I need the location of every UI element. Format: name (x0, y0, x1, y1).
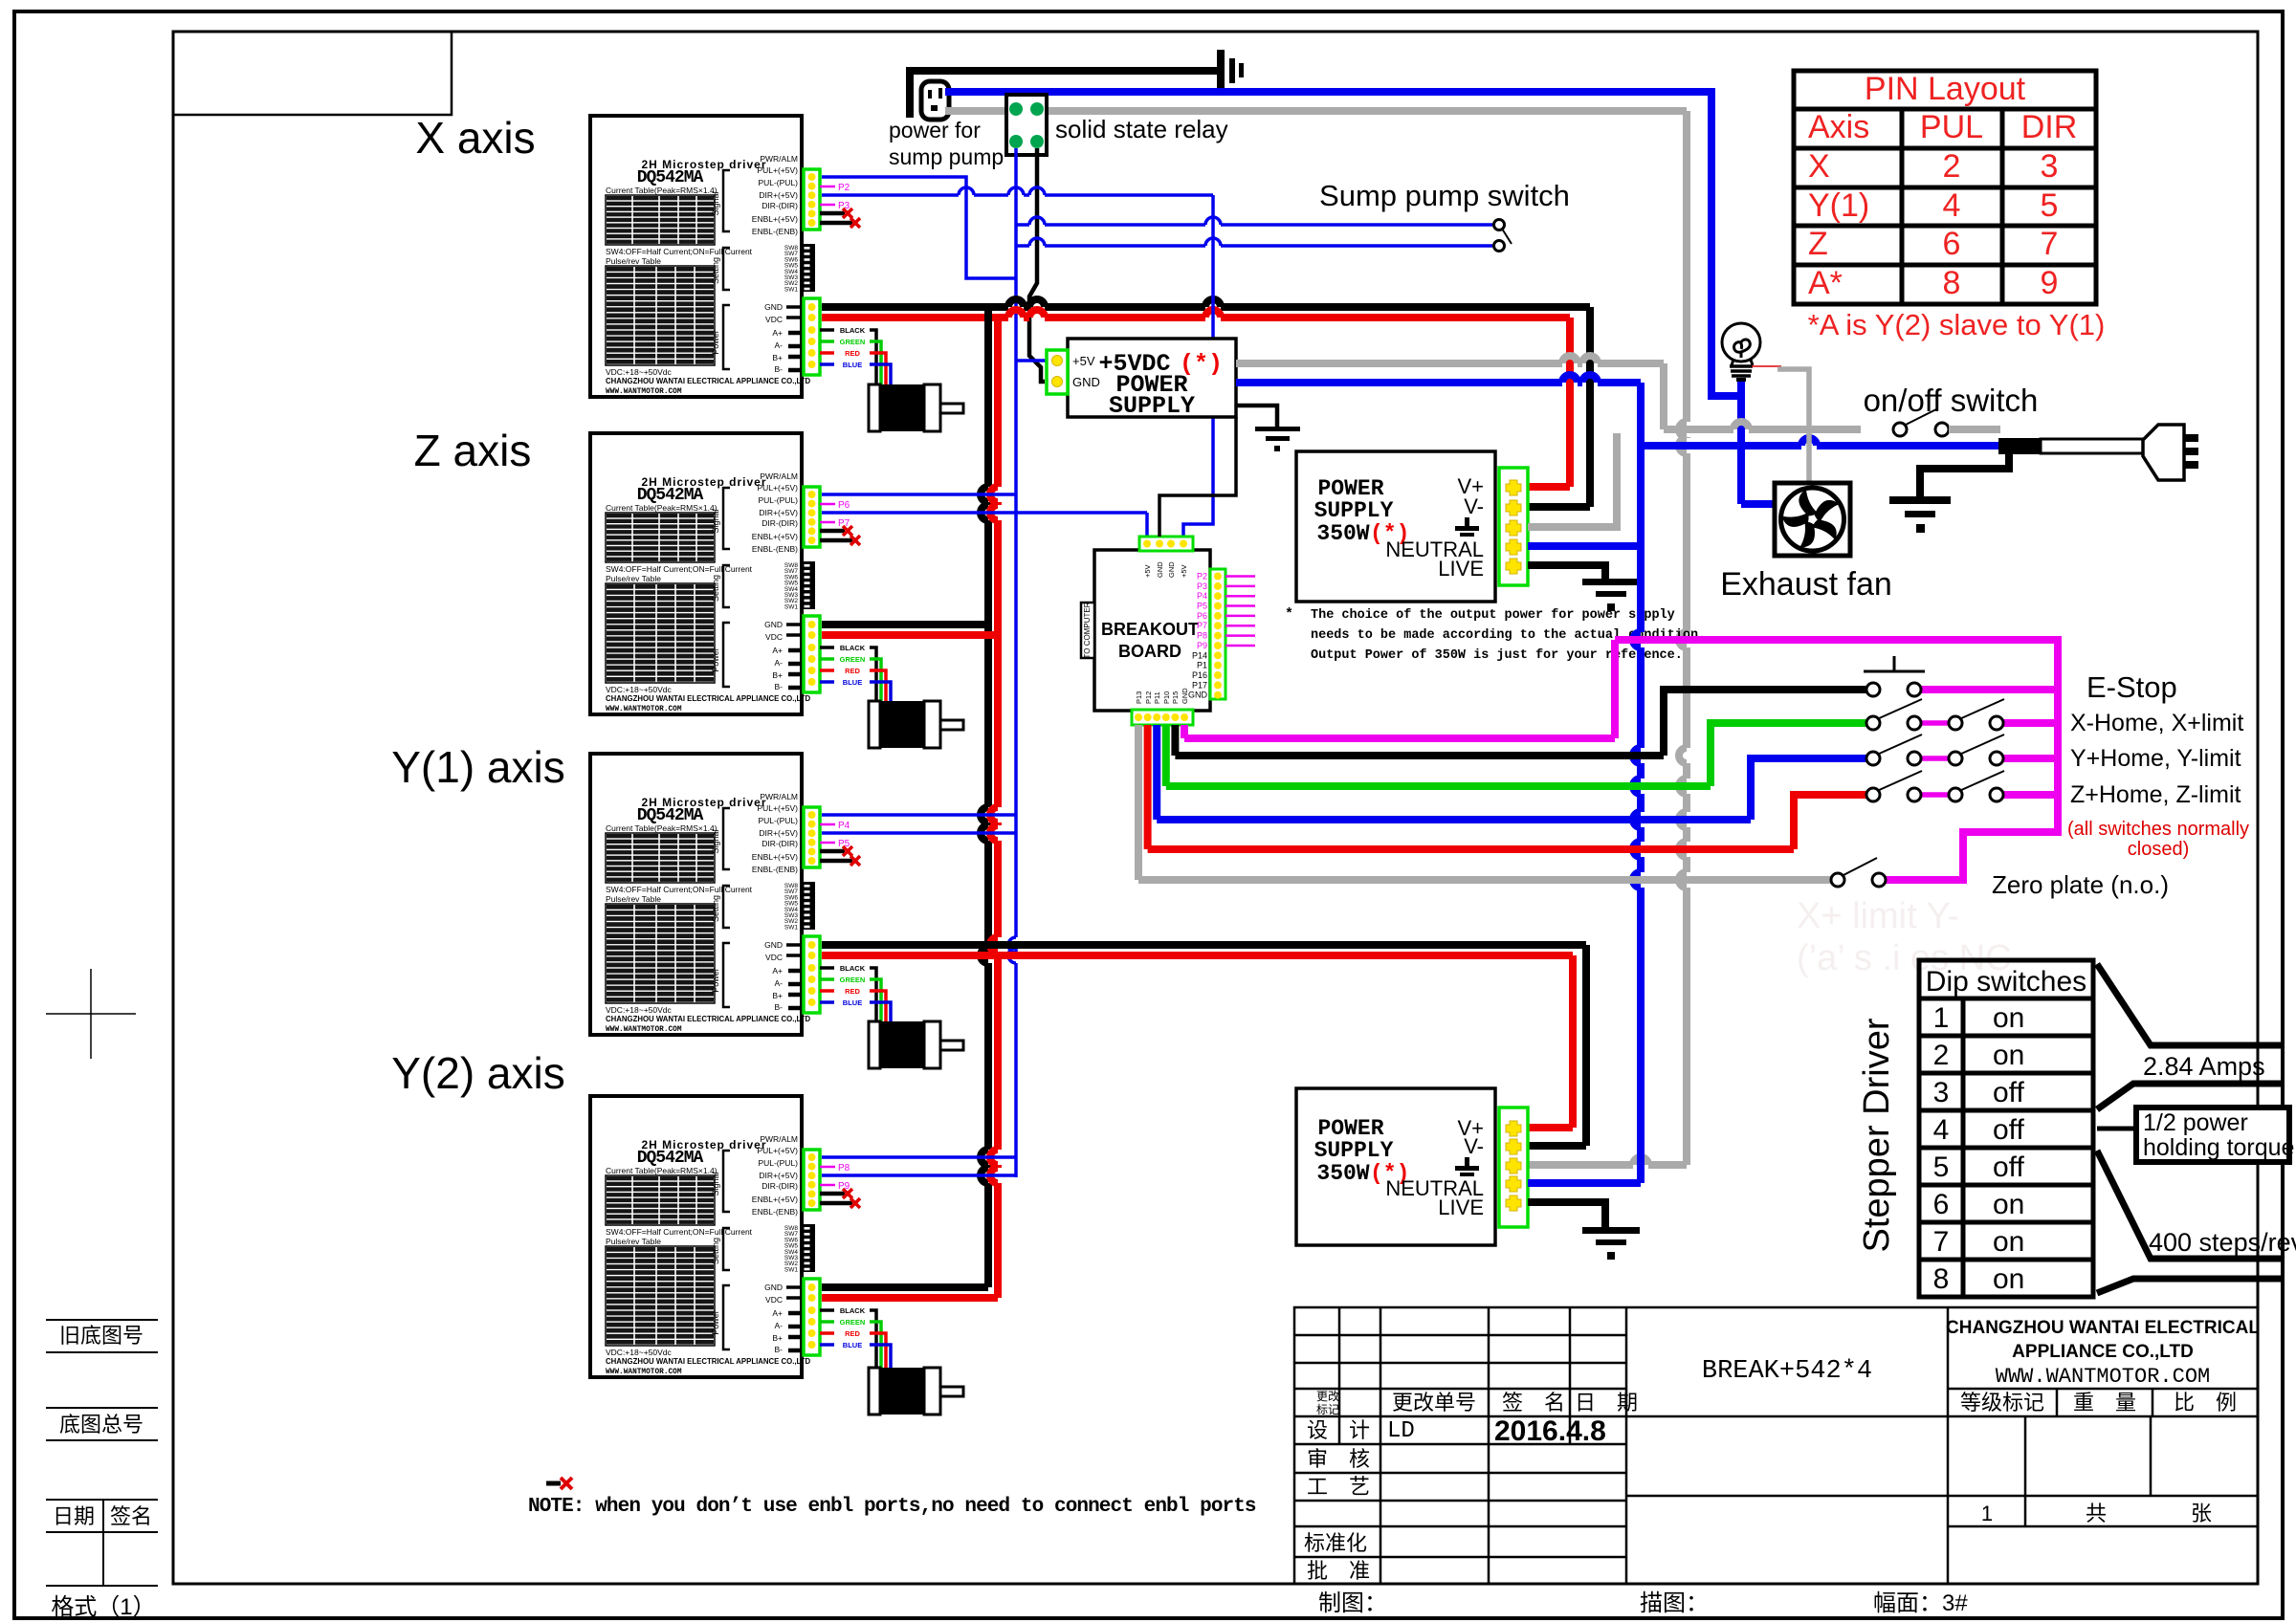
svg-text:RED: RED (845, 987, 860, 996)
svg-text:8: 8 (1943, 265, 1961, 301)
svg-text:格式（1）: 格式（1） (51, 1594, 155, 1620)
svg-text:ENBL-(ENB): ENBL-(ENB) (752, 1207, 798, 1217)
svg-text:350W: 350W (1316, 521, 1369, 546)
ENBL stub nc (820, 211, 845, 216)
svg-text:SW4:OFF=Half Current;ON=Full C: SW4:OFF=Half Current;ON=Full Current (606, 564, 753, 574)
pin stub P3 (820, 204, 835, 207)
svg-text:7: 7 (1933, 1226, 1950, 1258)
microstep driver U3 Y1-axis DQ542MA (590, 754, 817, 1035)
svg-text:Dip switches: Dip switches (1926, 966, 2086, 998)
power connector of U3 Y1-axis (804, 936, 820, 1013)
svg-text:The choice of the output powe: The choice of the output power for power… (1311, 608, 1675, 623)
svg-text:X: X (1808, 148, 1830, 185)
svg-text:DQ542MA: DQ542MA (637, 806, 704, 825)
svg-text:BREAK+542*4: BREAK+542*4 (1702, 1357, 1872, 1386)
svg-text:PUL-(PUL): PUL-(PUL) (758, 495, 798, 505)
svg-text:+5V: +5V (1180, 564, 1188, 578)
left margin label box1 (46, 1320, 158, 1352)
PS1 blue output (1236, 375, 1641, 383)
svg-text:DQ542MA: DQ542MA (637, 168, 704, 187)
svg-text:Pulse/rev Table: Pulse/rev Table (606, 256, 661, 266)
svg-text:sump pump: sump pump (889, 144, 1004, 169)
PS1 ground wire (1236, 406, 1277, 427)
svg-text:off: off (1993, 1114, 2024, 1146)
svg-text:Sump pump switch: Sump pump switch (1319, 179, 1570, 212)
svg-text:B-: B- (775, 1345, 784, 1354)
PS2 connector (1499, 468, 1528, 585)
svg-text:P12: P12 (1144, 691, 1153, 704)
svg-text:P13: P13 (1135, 691, 1143, 704)
on/off switch S7 (1893, 409, 1949, 436)
PS1 input connector (1047, 350, 1068, 394)
svg-text:PWR/ALM: PWR/ALM (760, 792, 798, 801)
faint watermark (1797, 896, 2012, 978)
svg-text:DIR-(DIR): DIR-(DIR) (762, 1181, 798, 1191)
E-stop switch S2 (1864, 656, 1925, 696)
svg-text:P16: P16 (1192, 670, 1207, 680)
svg-text:Zero plate (n.o.): Zero plate (n.o.) (1992, 870, 2169, 899)
svg-text:批 准: 批 准 (1307, 1559, 1370, 1583)
pin stub P4 (820, 823, 835, 826)
svg-text:旧底图号: 旧底图号 (59, 1324, 143, 1348)
ENBL stub nc (820, 1201, 852, 1206)
svg-text:VDC:+18~+50Vdc: VDC:+18~+50Vdc (606, 1348, 673, 1357)
svg-text:on: on (1993, 1040, 2024, 1071)
svg-text:ENBL-(ENB): ENBL-(ENB) (752, 227, 798, 236)
ENBL stub nc (820, 849, 845, 854)
U2 GND wire (black) (822, 621, 988, 628)
svg-text:P7: P7 (1197, 621, 1207, 630)
to-computer port (1081, 603, 1094, 658)
svg-text:日 期: 日 期 (1575, 1391, 1638, 1415)
motor wire BLACK (820, 646, 834, 649)
svg-text:P2: P2 (1197, 572, 1207, 581)
svg-text:VDC: VDC (765, 953, 783, 962)
signal connector of U2 Z-axis (804, 487, 820, 547)
svg-text:Signal: Signal (711, 829, 720, 853)
svg-text:P10: P10 (1162, 691, 1171, 704)
svg-text:ENBL+(+5V): ENBL+(+5V) (752, 852, 798, 862)
svg-text:2016.4.8: 2016.4.8 (1494, 1415, 1606, 1447)
svg-text:on: on (1993, 1263, 2024, 1295)
Y limit wire (blue) (1153, 725, 1160, 820)
svg-text:Setting: Setting (711, 575, 720, 602)
svg-text:DIR-(DIR): DIR-(DIR) (762, 839, 798, 848)
gray bus vertical (1679, 111, 1687, 1165)
svg-text:closed): closed) (2128, 839, 2189, 860)
U4 VDC wire (red) (822, 1294, 998, 1302)
VDC vertical (red) to U2/U4 (990, 318, 998, 1298)
svg-text:Pulse/rev Table: Pulse/rev Table (606, 574, 661, 583)
motor wire BLACK (820, 966, 834, 970)
E-stop wire (black) (1171, 725, 1179, 756)
solid state relay K1 (1006, 95, 1047, 155)
svg-text:BLUE: BLUE (843, 678, 862, 687)
svg-text:Y(1) axis: Y(1) axis (391, 742, 564, 792)
svg-text:BLUE: BLUE (843, 998, 862, 1007)
U2 VDC wire (red) (822, 631, 998, 639)
svg-text:VDC: VDC (765, 632, 783, 642)
svg-text:GND: GND (764, 620, 783, 629)
stepper motor for U1 X-axis (869, 384, 963, 431)
svg-text:GREEN: GREEN (840, 338, 866, 346)
U2 PUL+ wire (blue) (822, 493, 1016, 496)
PS3 NEUTRAL wire (blue) (1528, 1179, 1641, 1187)
svg-text:张: 张 (2191, 1502, 2212, 1525)
PS2 NEUTRAL wire (blue) (1528, 542, 1641, 550)
svg-text:B-: B- (775, 1002, 784, 1012)
blue wire bulb to fan (1737, 382, 1745, 504)
svg-text:A+: A+ (772, 646, 783, 655)
svg-text:P11: P11 (1153, 691, 1161, 704)
svg-text:Setting: Setting (711, 1238, 720, 1264)
svg-text:Z axis: Z axis (414, 426, 532, 475)
svg-text:1: 1 (1981, 1502, 1993, 1525)
svg-text:GND: GND (764, 1283, 783, 1292)
svg-text:7: 7 (2041, 226, 2059, 262)
svg-text:共: 共 (2086, 1502, 2107, 1525)
svg-text:BREAKOUT: BREAKOUT (1101, 620, 1199, 639)
left margin registration cross (46, 969, 136, 1059)
svg-text:等级标记: 等级标记 (1960, 1391, 2044, 1415)
PS1 gray output (1236, 356, 1664, 363)
svg-text:NOTE: when you don’t use enbl: NOTE: when you don’t use enbl ports,no n… (528, 1496, 1256, 1518)
light bulb lamp (1722, 323, 1760, 365)
breakout bottom connector (1132, 710, 1193, 725)
svg-text:P17: P17 (1192, 680, 1207, 690)
svg-text:(all switches normally: (all switches normally (2067, 819, 2249, 840)
stepper motor for U2 Z-axis (869, 701, 963, 748)
svg-text:制图：: 制图： (1318, 1590, 1387, 1616)
svg-text:GND: GND (1072, 375, 1100, 389)
svg-text:P8: P8 (1197, 631, 1207, 641)
pin stub P8 (820, 1166, 835, 1169)
motor wire GREEN (820, 977, 834, 981)
motor wire RED (820, 989, 834, 993)
svg-text:1: 1 (1933, 1002, 1950, 1034)
svg-text:PUL+(+5V): PUL+(+5V) (757, 803, 798, 813)
magenta row links (2003, 686, 2058, 693)
PS2 LIVE wire (black) (1528, 565, 1605, 581)
svg-text:签 名: 签 名 (1502, 1391, 1565, 1415)
svg-text:DIR+(+5V): DIR+(+5V) (759, 508, 798, 517)
svg-text:GND: GND (1167, 561, 1176, 578)
wire outlet live (blue) top bus (945, 92, 1741, 396)
svg-text:V-: V- (1464, 1134, 1484, 1158)
svg-text:3: 3 (2041, 148, 2059, 185)
wire breakout GND (black) (1159, 417, 1236, 537)
svg-text:BLACK: BLACK (840, 1306, 866, 1315)
svg-text:solid state relay: solid state relay (1055, 115, 1228, 143)
stepper motor for U4 Y2-axis (869, 1368, 963, 1415)
svg-text:P4: P4 (1197, 591, 1207, 601)
svg-text:off: off (1993, 1151, 2024, 1183)
svg-text:P3: P3 (1197, 581, 1207, 591)
svg-text:Power: Power (711, 968, 720, 993)
svg-text:A-: A- (775, 658, 784, 668)
PIN layout table (1794, 71, 2096, 304)
svg-text:VDC:+18~+50Vdc: VDC:+18~+50Vdc (606, 367, 673, 377)
svg-text:PWR/ALM: PWR/ALM (760, 154, 798, 164)
wire relay to GND of 5V supply (black) (1029, 148, 1045, 382)
350W power supply PS2 (1296, 451, 1495, 602)
svg-text:P2: P2 (838, 183, 850, 193)
U1 PUL+ wire (blue) (822, 177, 1016, 278)
svg-text:PUL: PUL (1920, 109, 1983, 145)
X home/limit switches S3 (1866, 699, 2004, 730)
svg-text:Power: Power (711, 1310, 720, 1335)
svg-text:RED: RED (845, 667, 860, 675)
U3 GND wire (black) to PS3 (822, 941, 1586, 949)
svg-text:1/2 power: 1/2 power (2143, 1109, 2248, 1136)
svg-text:PUL+(+5V): PUL+(+5V) (757, 165, 798, 175)
Z home/limit switches S5 (1866, 771, 2004, 801)
svg-text:BLACK: BLACK (840, 644, 866, 652)
svg-text:DIR+(+5V): DIR+(+5V) (759, 1171, 798, 1180)
svg-text:GREEN: GREEN (840, 655, 866, 664)
svg-text:工 艺: 工 艺 (1307, 1475, 1370, 1499)
breakout board U5 (1094, 550, 1210, 711)
motor wire BLUE (820, 1000, 834, 1004)
svg-text:VDC:+18~+50Vdc: VDC:+18~+50Vdc (606, 685, 673, 694)
svg-text:Current Table(Peak=RMS×1.4): Current Table(Peak=RMS×1.4) (606, 186, 717, 195)
svg-text:Y+Home, Y-limit: Y+Home, Y-limit (2070, 745, 2241, 772)
title block (1294, 1307, 2258, 1584)
svg-text:标准化: 标准化 (1304, 1531, 1367, 1555)
svg-text:P6: P6 (1197, 611, 1207, 621)
svg-text:ENBL-(ENB): ENBL-(ENB) (752, 865, 798, 874)
svg-text:WWW.WANTMOTOR.COM: WWW.WANTMOTOR.COM (606, 388, 682, 396)
PS3 LIVE wire (black) (1528, 1202, 1605, 1227)
svg-text:B-: B- (775, 682, 784, 691)
black wire cord to ground (1920, 454, 2009, 496)
ENBL stub nc (820, 538, 852, 543)
svg-text:GND: GND (764, 302, 783, 312)
gray wire bulb to fan top (1777, 369, 1809, 485)
svg-text:Z+Home, Z-limit: Z+Home, Z-limit (2070, 781, 2241, 808)
chassis ground top (rotated) (1217, 50, 1244, 92)
svg-text:SUPPLY: SUPPLY (1109, 392, 1195, 420)
svg-text:GND: GND (764, 940, 783, 950)
pin stub P9 (820, 1184, 835, 1187)
U1 DIR+ wire (blue) (822, 187, 1213, 195)
svg-text:WWW.WANTMOTOR.COM: WWW.WANTMOTOR.COM (1996, 1365, 2210, 1389)
U3 DIR+ wire (blue) (822, 831, 1016, 835)
Y home/limit switches S4 (1866, 735, 2004, 765)
svg-text:P9: P9 (1197, 641, 1207, 650)
PS3 connector (1499, 1108, 1528, 1227)
brace rows5-8 400 steps (2097, 1151, 2283, 1293)
svg-text:重 量: 重 量 (2073, 1391, 2136, 1415)
svg-text:Signal: Signal (711, 191, 720, 215)
motor wire GREEN (820, 657, 834, 661)
svg-text:LIVE: LIVE (1438, 557, 1484, 581)
svg-text:Z: Z (1808, 226, 1828, 262)
GND bus (black) from U1 to PS2 (822, 299, 1590, 307)
svg-text:DIR+(+5V): DIR+(+5V) (759, 190, 798, 200)
breakout right connector (1210, 569, 1225, 699)
svg-text:SW1: SW1 (784, 286, 798, 293)
svg-text:9: 9 (2041, 265, 2059, 301)
svg-text:E-Stop: E-Stop (2086, 670, 2177, 704)
svg-text:WWW.WANTMOTOR.COM: WWW.WANTMOTOR.COM (606, 706, 682, 713)
svg-text:B+: B+ (772, 670, 783, 680)
VDC bus (red) from U1 to PS2 (822, 310, 1570, 318)
pin stub P6 (820, 503, 835, 506)
svg-text:Signal: Signal (711, 1172, 720, 1195)
svg-text:设 计: 设 计 (1307, 1418, 1370, 1442)
breakout top connector (1139, 537, 1193, 551)
svg-text:Y(1): Y(1) (1808, 187, 1869, 224)
svg-text:DIR: DIR (2021, 109, 2078, 145)
svg-text:PUL-(PUL): PUL-(PUL) (758, 816, 798, 825)
svg-text:Current Table(Peak=RMS×1.4): Current Table(Peak=RMS×1.4) (606, 1166, 717, 1175)
wire outlet neutral (gray) top bus (945, 107, 1006, 115)
ENBL stub nc (820, 1192, 845, 1196)
top-left title box (173, 32, 452, 115)
U2 DIR+ wire (blue) (822, 511, 1147, 515)
wire sump switch A (blue) (1016, 217, 1492, 225)
svg-text:CHANGZHOU WANTAI ELECTRICAL AP: CHANGZHOU WANTAI ELECTRICAL APPLIANCE CO… (606, 1357, 810, 1366)
svg-text:P15: P15 (1171, 691, 1180, 704)
ground symbol at plug (1889, 496, 1951, 533)
motor wire BLACK (820, 1308, 834, 1312)
svg-text:400 steps/rev: 400 steps/rev (2149, 1228, 2296, 1257)
svg-text:X axis: X axis (415, 113, 535, 163)
left margin date-sign table (46, 1500, 158, 1586)
svg-text:DQ542MA: DQ542MA (637, 1149, 704, 1168)
svg-text:CHANGZHOU WANTAI ELECTRICAL AP: CHANGZHOU WANTAI ELECTRICAL APPLIANCE CO… (606, 1015, 810, 1023)
ground symbol PS1 (1255, 427, 1300, 451)
svg-text:DIR-(DIR): DIR-(DIR) (762, 201, 798, 210)
motor wire BLUE (820, 1343, 834, 1347)
motor wire BLUE (820, 680, 834, 684)
microstep driver U1 X-axis DQ542MA (590, 116, 817, 397)
left margin label box2 (46, 1408, 158, 1440)
power connector of U1 X-axis (804, 298, 820, 375)
motor wire GREEN (820, 1320, 834, 1324)
svg-text:off: off (1993, 1077, 2024, 1108)
red thin wire at bulb base (1752, 365, 1781, 367)
svg-text:350W: 350W (1316, 1161, 1369, 1186)
gray wire switch to cord (1949, 426, 2000, 433)
svg-text:B+: B+ (772, 991, 783, 1000)
GND vertical (black) to U2/U4 (981, 307, 988, 1287)
zero plate wire (gray) (1135, 725, 1142, 880)
svg-text:Pulse/rev Table: Pulse/rev Table (606, 1237, 661, 1246)
svg-text:LD: LD (1387, 1418, 1415, 1444)
pin stub P2 (820, 186, 835, 188)
svg-text:BLACK: BLACK (840, 964, 866, 973)
svg-text:A*: A* (1808, 265, 1843, 301)
svg-text:SW1: SW1 (784, 603, 798, 610)
svg-text:VDC: VDC (765, 1295, 783, 1305)
ENBL stub nc (820, 221, 852, 226)
motor wire BLUE (820, 362, 834, 366)
svg-text:5: 5 (1933, 1151, 1950, 1183)
svg-text:Pulse/rev Table: Pulse/rev Table (606, 894, 661, 904)
svg-text:描图：: 描图： (1640, 1590, 1709, 1616)
svg-text:CHANGZHOU WANTAI ELECTRICAL: CHANGZHOU WANTAI ELECTRICAL (1946, 1318, 2260, 1338)
power outlet icon (power for sump pump) (921, 81, 949, 120)
svg-text:Signal: Signal (711, 509, 720, 533)
motor wire GREEN (820, 340, 834, 343)
stepper motor for U3 Y1-axis (869, 1021, 963, 1068)
svg-text:4: 4 (1933, 1114, 1950, 1146)
svg-text:+5V: +5V (1072, 354, 1095, 368)
signal connector of U4 Y2-axis (804, 1150, 820, 1210)
sump pump switch S1 (1494, 220, 1505, 252)
svg-text:*A is Y(2) slave to Y(1): *A is Y(2) slave to Y(1) (1808, 308, 2106, 341)
svg-text:2: 2 (1943, 148, 1961, 185)
svg-text:签名: 签名 (110, 1504, 152, 1528)
motor wire RED (820, 669, 834, 672)
svg-text:VDC: VDC (765, 315, 783, 324)
svg-text:*: * (1285, 606, 1293, 623)
svg-text:SW4:OFF=Half Current;ON=Full C: SW4:OFF=Half Current;ON=Full Current (606, 885, 753, 894)
wire sump switch B (blue) (1016, 238, 1492, 246)
blue power bus vertical (1633, 383, 1641, 1183)
svg-text:BLUE: BLUE (843, 1341, 862, 1349)
brace rows1-3 2.84 Amps (2097, 964, 2283, 1109)
svg-text:BOARD: BOARD (1118, 642, 1181, 661)
350W power supply PS3 (1296, 1088, 1495, 1245)
svg-text:BLACK: BLACK (840, 326, 866, 335)
svg-text:A+: A+ (772, 966, 783, 976)
svg-text:PUL+(+5V): PUL+(+5V) (757, 483, 798, 493)
NOTE enbl ports (546, 1481, 561, 1486)
svg-text:+5V: +5V (1143, 564, 1152, 578)
svg-text:SW4:OFF=Half Current;ON=Full C: SW4:OFF=Half Current;ON=Full Current (606, 247, 753, 256)
svg-text:holding torque: holding torque (2143, 1134, 2294, 1161)
svg-text:WWW.WANTMOTOR.COM: WWW.WANTMOTOR.COM (606, 1369, 682, 1376)
svg-text:Power: Power (711, 647, 720, 672)
+5VDC power supply PS1 (1068, 339, 1236, 417)
svg-text:CHANGZHOU WANTAI ELECTRICAL AP: CHANGZHOU WANTAI ELECTRICAL APPLIANCE CO… (606, 694, 810, 703)
svg-text:SUPPLY: SUPPLY (1314, 498, 1394, 523)
svg-text:比 例: 比 例 (2174, 1391, 2237, 1415)
svg-text:on: on (1993, 1002, 2024, 1034)
svg-text:PWR/ALM: PWR/ALM (760, 1134, 798, 1144)
pin stub P7 (820, 521, 835, 524)
svg-text:B+: B+ (772, 1333, 783, 1343)
svg-text:P6: P6 (838, 500, 850, 511)
ENBL stub nc (820, 859, 852, 864)
svg-text:Output Power of 350W is just f: Output Power of 350W is just for your re… (1311, 648, 1683, 663)
svg-text:Setting: Setting (711, 895, 720, 922)
svg-text:5: 5 (2041, 187, 2059, 224)
svg-text:Setting: Setting (711, 257, 720, 284)
svg-text:BLUE: BLUE (843, 361, 862, 369)
svg-text:P1: P1 (1197, 661, 1207, 670)
svg-text:on: on (1993, 1189, 2024, 1220)
svg-text:更改: 更改 (1316, 1390, 1339, 1403)
wire outlet to chassis ground (black) (910, 71, 1219, 118)
svg-text:ENBL+(+5V): ENBL+(+5V) (752, 532, 798, 541)
PS2 gray ground wire (1528, 433, 1617, 527)
svg-text:LIVE: LIVE (1438, 1195, 1484, 1219)
svg-text:2.84 Amps: 2.84 Amps (2143, 1052, 2265, 1081)
power cord + plug (1998, 438, 2041, 454)
svg-text:日期: 日期 (53, 1504, 95, 1528)
svg-text:GND: GND (1188, 691, 1208, 700)
microstep driver U4 Y2-axis DQ542MA (590, 1096, 817, 1377)
svg-text:P5: P5 (1197, 602, 1207, 611)
X limit wire (green) (1162, 725, 1170, 786)
svg-text:幅面：3#: 幅面：3# (1873, 1590, 1968, 1616)
brace row4 1/2 power (2097, 1127, 2136, 1131)
svg-text:3: 3 (1933, 1077, 1950, 1108)
